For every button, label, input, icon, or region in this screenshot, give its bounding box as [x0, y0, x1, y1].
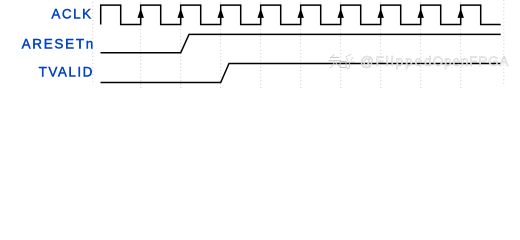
- rising-edge arrow 1: [138, 8, 144, 18]
- gridline t5: [300, 2, 302, 88]
- rising-edge arrow 8: [418, 8, 424, 18]
- rising-edge arrow 9: [458, 8, 464, 18]
- rising-edge arrow 6: [338, 8, 344, 18]
- rising-edge arrow 4: [258, 8, 264, 18]
- gridline t7: [380, 2, 382, 88]
- gridline t2: [180, 2, 182, 88]
- rising-edge arrow 5: [298, 8, 304, 18]
- gridline t8: [420, 2, 422, 88]
- left boundary dotted line: [92, 2, 94, 85]
- gridline t3: [220, 2, 222, 88]
- watermark CJK glyph 乎: [344, 54, 355, 68]
- right boundary dotted line: [503, 0, 505, 85]
- waveform ARESETn: [101, 34, 501, 52]
- gridline t4: [260, 2, 262, 88]
- rising-edge arrow 2: [178, 8, 184, 18]
- gridline t6: [340, 2, 342, 88]
- rising-edge arrow 3: [218, 8, 224, 18]
- svg-text:TVALID: TVALID: [39, 65, 94, 80]
- svg-text:ARESETn: ARESETn: [22, 36, 95, 51]
- waveform TVALID: [101, 64, 501, 83]
- rising-edge arrow 7: [378, 8, 384, 18]
- gridline t1: [140, 2, 142, 88]
- clock waveform ACLK: [101, 5, 501, 24]
- gridline t9: [460, 2, 462, 88]
- svg-text:@Flipped: @Flipped: [360, 54, 434, 69]
- watermark CJK glyph 知: [329, 54, 346, 68]
- svg-text:OpenFPGA: OpenFPGA: [433, 54, 510, 69]
- svg-text:ACLK: ACLK: [51, 7, 92, 22]
